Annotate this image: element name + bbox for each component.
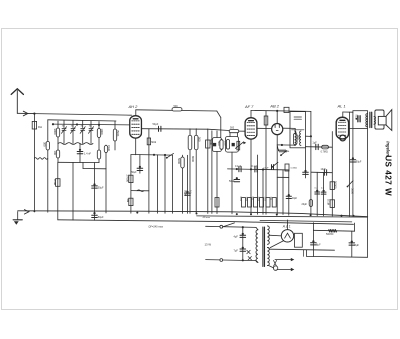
svg-text:30: 30 <box>71 125 74 127</box>
svg-text:AF 7: AF 7 <box>244 104 254 109</box>
svg-text:AL 1: AL 1 <box>337 103 346 108</box>
svg-text:40µF: 40µF <box>292 198 298 200</box>
svg-text:3000: 3000 <box>53 129 57 135</box>
svg-text:50µF: 50µF <box>356 160 362 163</box>
svg-text:500: 500 <box>174 105 179 108</box>
svg-text:10µF: 10µF <box>321 168 327 171</box>
svg-text:5000: 5000 <box>184 190 188 196</box>
svg-text:5000: 5000 <box>239 197 241 202</box>
svg-text:50µF: 50µF <box>153 123 159 126</box>
svg-text:0,1: 0,1 <box>315 188 319 190</box>
svg-text:(500): (500) <box>116 130 120 136</box>
svg-text:50µF: 50µF <box>98 187 104 190</box>
svg-text:1µF: 1µF <box>313 142 318 145</box>
svg-text:AH 2: AH 2 <box>128 104 139 109</box>
svg-text:30: 30 <box>81 125 84 127</box>
svg-text:0.1M: 0.1M <box>326 199 330 206</box>
svg-text:5000: 5000 <box>177 158 181 164</box>
svg-text:5M: 5M <box>126 199 130 203</box>
svg-text:500/50: 500/50 <box>326 233 334 236</box>
svg-text:13 W: 13 W <box>205 242 212 246</box>
svg-text:30: 30 <box>62 125 65 127</box>
svg-text:50000: 50000 <box>333 181 337 189</box>
svg-text:8000: 8000 <box>191 156 195 162</box>
svg-text:A Z 1: A Z 1 <box>282 225 291 229</box>
svg-text:4µF: 4µF <box>234 236 239 239</box>
svg-text:Ingelen: Ingelen <box>386 141 391 156</box>
svg-text:0.1µF: 0.1µF <box>235 165 242 168</box>
svg-text:0,1: 0,1 <box>321 188 325 190</box>
svg-text:50µF: 50µF <box>131 172 137 174</box>
svg-text:20µF: 20µF <box>302 203 308 206</box>
svg-text:50µF: 50µF <box>229 180 235 183</box>
svg-text:1.4 nF: 1.4 nF <box>84 153 92 156</box>
svg-text:0.1MΩ: 0.1MΩ <box>291 167 298 169</box>
svg-text:5000: 5000 <box>354 115 356 121</box>
svg-text:0.1: 0.1 <box>189 190 193 194</box>
svg-text:7µF: 7µF <box>234 249 239 252</box>
svg-text:MΩd: MΩd <box>151 142 157 144</box>
svg-text:5µF: 5µF <box>316 244 321 247</box>
svg-text:100: 100 <box>53 151 57 156</box>
svg-text:1000: 1000 <box>100 129 104 135</box>
svg-text:50µF: 50µF <box>98 216 104 219</box>
svg-text:5µF: 5µF <box>355 244 360 247</box>
svg-text:AB 2: AB 2 <box>269 104 279 109</box>
svg-text:ΩF=240 max: ΩF=240 max <box>149 226 164 229</box>
svg-text:500: 500 <box>197 137 201 142</box>
svg-text:0.3M: 0.3M <box>53 179 57 186</box>
svg-text:0.7MΩ: 0.7MΩ <box>321 150 328 153</box>
svg-text:300: 300 <box>43 142 47 147</box>
svg-text:27000: 27000 <box>126 175 130 183</box>
svg-text:4Ω max: 4Ω max <box>203 217 211 219</box>
svg-text:30: 30 <box>89 125 92 127</box>
svg-text:1530: 1530 <box>107 145 111 151</box>
svg-text:100: 100 <box>224 141 228 146</box>
svg-text:Rol: Rol <box>38 125 42 129</box>
svg-text:500: 500 <box>217 141 221 146</box>
svg-text:US 427 W: US 427 W <box>383 155 392 196</box>
svg-text:500: 500 <box>230 126 235 129</box>
